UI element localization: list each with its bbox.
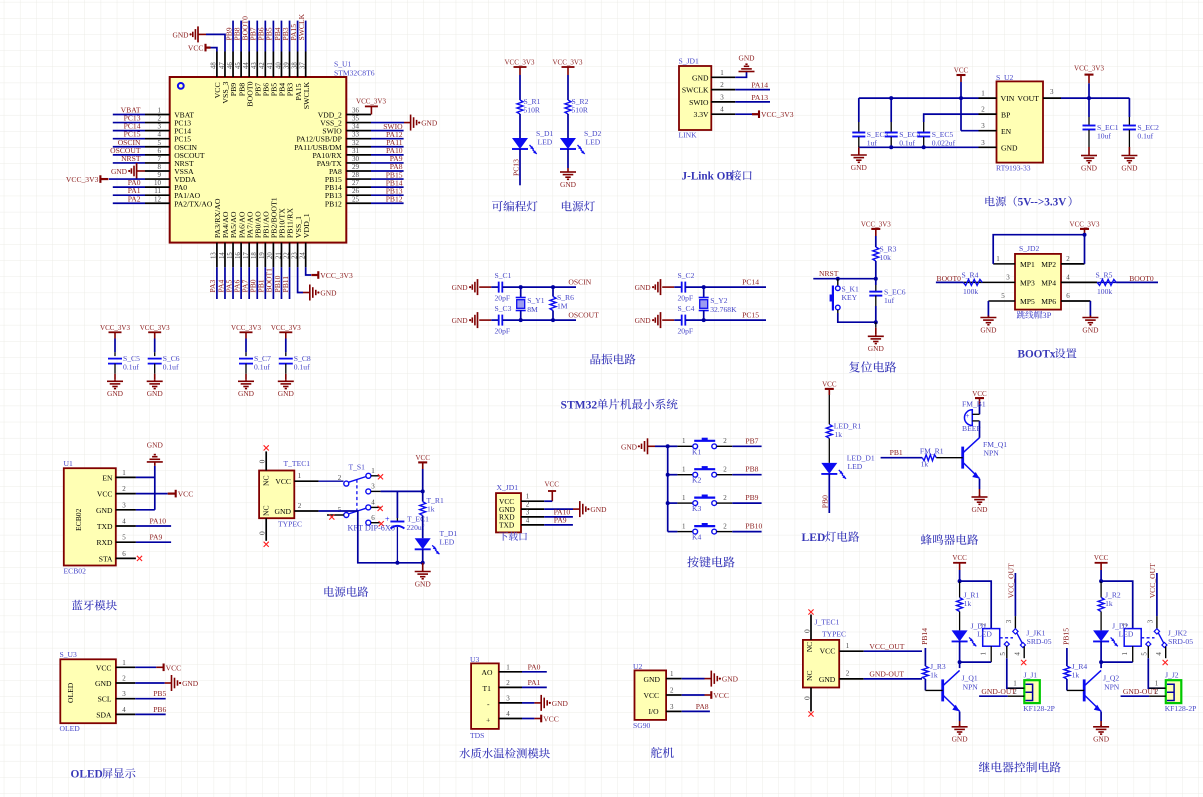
svg-text:2: 2 (122, 675, 126, 683)
svg-text:0: 0 (802, 629, 811, 633)
ground VSS_3 pin47 wire (172, 26, 225, 51)
svg-text:1: 1 (122, 659, 126, 667)
svg-text:GND: GND (238, 389, 255, 398)
relay coil J_JK2 (1101, 581, 1141, 662)
wire net PA9 download (544, 516, 573, 525)
wire net PA14 (735, 81, 770, 90)
svg-text:6: 6 (371, 514, 375, 522)
svg-text:0.1uf: 0.1uf (163, 363, 179, 372)
U1 pin 23 VSS_1 (291, 216, 302, 267)
power VCC_3V3 VDD_1 pin24 (306, 267, 353, 280)
svg-text:2: 2 (158, 115, 162, 123)
svg-text:NPN: NPN (984, 449, 1000, 458)
S_U2 left pin 1 (979, 90, 997, 99)
ground typec (415, 563, 432, 589)
U1 pin 30 PA9/TX (317, 154, 404, 168)
svg-text:VCC_3V3: VCC_3V3 (505, 59, 535, 67)
LED LED_D1 (821, 438, 875, 479)
svg-text:0: 0 (258, 459, 267, 463)
svg-text:6: 6 (1066, 292, 1070, 300)
X_JD1 pin 4 TXD (499, 516, 544, 529)
svg-text:MP3: MP3 (1020, 278, 1035, 287)
U1 pin 38 PA15 (289, 21, 303, 101)
svg-text:VCC: VCC (952, 554, 967, 562)
caption buzzer circuit (921, 534, 932, 545)
U1 pin 7 NRST (113, 154, 194, 168)
svg-text:3: 3 (1006, 273, 1010, 281)
svg-text:X_JD1: X_JD1 (497, 483, 519, 492)
wire net PC13 (511, 149, 520, 185)
svg-text:5V-->3.3V: 5V-->3.3V (1018, 197, 1067, 209)
U1 pin 32 PA11/USB/DM (294, 138, 403, 152)
U1 pin 37 SWCLK (297, 13, 311, 109)
svg-text:GND: GND (96, 506, 113, 515)
LED J_D2 (1093, 612, 1134, 647)
svg-text:1k: 1k (1105, 599, 1113, 608)
svg-text:2: 2 (723, 494, 727, 502)
X_JD1 pin 3 RXD (499, 508, 544, 521)
pin1 relay connector (1149, 679, 1166, 688)
svg-text:ECB02: ECB02 (74, 508, 83, 531)
U1 pin 22 PB11/RX (281, 208, 295, 299)
svg-text:3: 3 (981, 139, 985, 147)
S_U3 pin 1 VCC (96, 659, 135, 673)
svg-text:3: 3 (122, 501, 126, 509)
connector X_JD1 (496, 483, 527, 541)
svg-text:20pF: 20pF (678, 327, 694, 336)
svg-text:3.3V: 3.3V (694, 110, 709, 119)
LED S_D1 (512, 129, 554, 154)
U1 pin 41 PB5 (265, 21, 279, 97)
svg-text:K3: K3 (692, 504, 701, 513)
svg-text:VCC_3V3: VCC_3V3 (140, 324, 170, 332)
svg-text:31: 31 (352, 147, 360, 155)
relay switch pin5 (999, 642, 1024, 689)
resistor S_R1 510R (517, 97, 541, 115)
svg-text:29: 29 (352, 163, 360, 171)
svg-text:2: 2 (981, 106, 985, 114)
svg-text:4: 4 (526, 516, 530, 524)
svg-text:TYPEC: TYPEC (278, 520, 302, 529)
caption button circuit (687, 556, 698, 567)
svg-text:MP1: MP1 (1020, 260, 1035, 269)
svg-text:PA2: PA2 (128, 194, 141, 203)
svg-text:1k: 1k (427, 505, 435, 514)
svg-text:33: 33 (352, 131, 360, 139)
svg-text:TDS: TDS (470, 731, 484, 740)
svg-text:14: 14 (219, 252, 226, 259)
svg-text:5: 5 (999, 652, 1007, 656)
U1 pin 1 VBAT (113, 106, 195, 120)
crystal S_Y1 8M (516, 287, 545, 320)
U1 pin 44 BOOT0 (240, 16, 254, 107)
svg-text:LED: LED (538, 138, 553, 147)
svg-text:4: 4 (371, 499, 375, 507)
U1 pin 5 OSCIN (113, 138, 198, 152)
wire led to node (1099, 641, 1103, 664)
svg-text:3P: 3P (1042, 310, 1051, 320)
svg-text:VIN: VIN (1001, 94, 1015, 103)
U1 pin 17 PA7/AO (240, 211, 254, 299)
svg-text:3: 3 (670, 703, 674, 711)
U1 pin 35 VSS_2 (320, 115, 371, 128)
svg-text:NRST: NRST (819, 269, 839, 278)
svg-text:GND-OUT: GND-OUT (1123, 687, 1158, 696)
svg-text:J_JK2: J_JK2 (1168, 628, 1187, 637)
svg-text:2: 2 (720, 81, 724, 89)
svg-text:20pF: 20pF (678, 294, 694, 303)
J_TEC1 pin 0 top (802, 609, 813, 640)
svg-text:34: 34 (352, 123, 360, 131)
svg-text:VCC_3V3: VCC_3V3 (761, 110, 794, 119)
svg-text:2: 2 (1066, 255, 1070, 263)
svg-text:5: 5 (338, 506, 342, 514)
resistor J_R2 1k (1098, 581, 1121, 611)
svg-text:1M: 1M (557, 302, 568, 311)
capacitor S_EC6 1uf (869, 279, 905, 325)
svg-text:4: 4 (506, 710, 510, 718)
ground crystal bottom-left (635, 312, 675, 328)
svg-text:AO: AO (482, 668, 493, 677)
capacitor S_C6 0.1uf (140, 324, 180, 398)
svg-text:SWCLK: SWCLK (682, 86, 709, 95)
svg-text:3: 3 (371, 483, 375, 491)
push button S_K1 KEY (830, 279, 876, 323)
S_JD1 pin 4 3.3V (694, 106, 736, 120)
svg-text:SDA: SDA (96, 710, 112, 719)
svg-text:36: 36 (352, 107, 360, 115)
svg-text:20: 20 (267, 252, 274, 259)
wire net PB0 (821, 474, 830, 513)
svg-text:1: 1 (158, 107, 162, 115)
wire net PA8 (682, 702, 710, 712)
svg-text:SWIO: SWIO (689, 98, 709, 107)
svg-text:42: 42 (259, 62, 266, 69)
T_TEC1 pin 0 top (258, 445, 269, 470)
U1 pin 39 PB3 (281, 21, 295, 97)
module U2 SG90 (633, 662, 666, 730)
svg-text:OLED: OLED (60, 724, 81, 733)
T_TEC1 pin 1 (294, 472, 318, 481)
svg-text:LINK: LINK (679, 131, 698, 140)
svg-text:S_C2: S_C2 (678, 271, 695, 280)
svg-text:45: 45 (235, 62, 242, 69)
J_TEC1 pin 0 bottom (802, 688, 813, 717)
power VCC_3V3 VDDA pin9 (66, 175, 145, 184)
U1 pin 14 PA4/AO (216, 211, 230, 299)
svg-text:S_R5: S_R5 (1096, 270, 1113, 279)
svg-text:LED: LED (848, 462, 863, 471)
svg-text:21: 21 (275, 252, 282, 259)
svg-text:5: 5 (1001, 292, 1005, 300)
wire button bus (666, 444, 670, 531)
svg-text:11: 11 (154, 187, 161, 195)
svg-text:NC: NC (805, 670, 814, 681)
svg-text:OLED: OLED (71, 769, 103, 781)
svg-text:GND: GND (590, 505, 607, 514)
svg-text:KFT DIP-6X6: KFT DIP-6X6 (348, 524, 395, 533)
power VCC servo (682, 691, 729, 700)
svg-text:3: 3 (506, 694, 510, 702)
relay switch pin4 NC (1155, 646, 1168, 665)
svg-text:S_R4: S_R4 (962, 270, 979, 279)
U1 pin 9 VDDA (145, 171, 197, 184)
caption programmable LED (492, 201, 503, 212)
svg-text:GND: GND (278, 389, 295, 398)
U1 pin 25 PB12 (325, 194, 404, 208)
J_TEC1 pin 1 VCC_OUT (839, 642, 922, 651)
U1 pin 42 PB6 (257, 21, 271, 97)
power VCC relay J_R1 (952, 554, 967, 583)
svg-text:GND: GND (1093, 735, 1110, 744)
svg-text:22: 22 (283, 252, 290, 259)
S_U2 left pin 2 (979, 106, 997, 115)
resistor T_R1 1k (420, 491, 444, 515)
U1 pin 3 PC14 (113, 122, 191, 136)
svg-text:28: 28 (352, 171, 360, 179)
ground servo (682, 671, 739, 687)
svg-text:PB12: PB12 (325, 199, 342, 208)
svg-text:23: 23 (291, 252, 298, 259)
svg-text:PA13: PA13 (751, 93, 768, 102)
S_JD1 pin 2 SWCLK (682, 81, 735, 95)
svg-text:ECB02: ECB02 (64, 567, 87, 576)
svg-text:2: 2 (338, 474, 342, 482)
svg-text:4: 4 (720, 106, 724, 114)
svg-text:GND: GND (635, 316, 652, 325)
U1 pin 43 PB7 (249, 21, 263, 97)
S_JD2 row 1 pins (993, 255, 1084, 269)
svg-text:K1: K1 (692, 447, 701, 456)
svg-text:VCC: VCC (543, 715, 559, 724)
svg-text:PA9: PA9 (554, 516, 567, 525)
svg-text:VCC: VCC (1094, 554, 1109, 562)
S_JD2 row 2 pins (963, 273, 1097, 287)
S_U3 pin 3 SCL (98, 690, 136, 704)
svg-text:46: 46 (227, 62, 234, 69)
svg-text:1: 1 (996, 255, 1000, 263)
caption servo (651, 747, 662, 758)
svg-text:GND-OUT: GND-OUT (981, 687, 1016, 696)
S_JD1 pin 1 GND (692, 69, 735, 83)
svg-text:1: 1 (720, 69, 724, 77)
svg-text:40: 40 (275, 62, 282, 69)
svg-text:2: 2 (670, 687, 674, 695)
svg-text:PA9: PA9 (150, 533, 163, 542)
svg-text:5: 5 (122, 534, 126, 542)
svg-text:6: 6 (158, 147, 162, 155)
svg-text:GND: GND (107, 389, 124, 398)
U1 pin 13 PA3/RX/AO (208, 198, 222, 299)
S_U2 left pin 4 (979, 139, 997, 148)
wire net GND-OUT relay (979, 687, 1024, 696)
svg-text:GND: GND (320, 289, 337, 298)
svg-text:J_Q1: J_Q1 (962, 674, 978, 683)
svg-text:GND: GND (147, 441, 164, 450)
svg-text:0.1uf: 0.1uf (254, 363, 270, 372)
wire (519, 114, 521, 138)
svg-text:1uf: 1uf (884, 296, 895, 305)
module S_U3 OLED (60, 650, 116, 733)
ground buttons (621, 438, 668, 454)
svg-text:T1: T1 (483, 684, 492, 693)
MCU U1 STM32C8T6 body (170, 60, 375, 243)
svg-text:37: 37 (299, 62, 306, 69)
svg-text:1k: 1k (964, 599, 972, 608)
svg-text:0.1uf: 0.1uf (123, 363, 139, 372)
U1 pin 18 PB0/AO (249, 211, 263, 299)
svg-text:GND: GND (692, 73, 709, 82)
U1 pin 26 PB13 (325, 186, 404, 200)
svg-text:VCC: VCC (954, 67, 969, 75)
svg-text:GND: GND (182, 679, 199, 688)
svg-text:8M: 8M (527, 305, 538, 314)
svg-text:VCC: VCC (644, 691, 660, 700)
U2 pin 2 (666, 687, 682, 696)
svg-text:1: 1 (670, 670, 674, 678)
caption crystal circuit (590, 354, 600, 365)
svg-text:GND: GND (980, 325, 997, 334)
svg-text:27: 27 (352, 179, 360, 187)
svg-text:3: 3 (1005, 619, 1013, 623)
svg-text:LED: LED (802, 531, 826, 544)
ground bootx pin6 (1082, 301, 1099, 334)
svg-text:GND: GND (1081, 163, 1098, 172)
U3 pin 4 (499, 710, 522, 719)
power VCC download (544, 481, 559, 502)
svg-text:T_TEC1: T_TEC1 (284, 459, 311, 468)
svg-text:PB0: PB0 (821, 495, 830, 508)
resistor S_R4 100k (936, 270, 982, 296)
wire OSCIN row (686, 285, 767, 289)
U1 pin 2 PC13 (113, 114, 191, 128)
svg-text:NC: NC (805, 642, 814, 653)
svg-text:S_JD1: S_JD1 (679, 57, 699, 66)
resistor FM_R1 1k (881, 447, 963, 469)
svg-text:SRD-05: SRD-05 (1168, 637, 1193, 646)
svg-text:35: 35 (352, 115, 360, 123)
wire (567, 114, 569, 138)
caption bluetooth module (72, 600, 83, 610)
svg-text:NC: NC (262, 505, 271, 516)
svg-text:GND: GND (452, 316, 469, 325)
svg-text:GND: GND (738, 54, 755, 63)
svg-text:S_Y2: S_Y2 (710, 296, 728, 305)
svg-text:1: 1 (682, 494, 686, 502)
svg-text:PB15: PB15 (1062, 628, 1071, 645)
svg-text:1: 1 (506, 663, 510, 671)
U1 pin 11 PA1/AO (113, 186, 201, 200)
svg-text:SRD-05: SRD-05 (1027, 637, 1052, 646)
svg-text:3: 3 (122, 690, 126, 698)
svg-text:2: 2 (846, 670, 850, 678)
svg-text:32.768K: 32.768K (710, 305, 737, 314)
ground download (544, 501, 607, 517)
transistor J_Q2 NPN (1084, 662, 1120, 711)
capacitor S_EC3 1uf (852, 98, 888, 147)
svg-text:2: 2 (298, 502, 302, 510)
svg-text:T_S1: T_S1 (349, 463, 366, 472)
U1 ECB02 pin 3 GND (96, 501, 136, 515)
caption power 5V to 3.3V (985, 196, 994, 206)
wire OSCOUT row (503, 318, 577, 322)
svg-text:OSCIN: OSCIN (568, 278, 591, 287)
svg-text:S_Y1: S_Y1 (527, 296, 545, 305)
connector T_TEC1 TYPEC (259, 459, 310, 529)
U1 pin 33 PA12/USB/DP (296, 130, 403, 144)
svg-text:SWCLK: SWCLK (297, 13, 306, 40)
svg-text:PB11: PB11 (281, 276, 290, 293)
svg-text:STA: STA (99, 554, 113, 563)
svg-text:GND: GND (172, 30, 189, 39)
svg-text:PC14: PC14 (742, 278, 759, 287)
svg-text:PB12: PB12 (386, 194, 403, 203)
svg-text:GND: GND (421, 119, 438, 128)
transistor FM_Q1 NPN (963, 421, 1008, 479)
capacitor S_C3 20pF (491, 304, 511, 336)
wire switch pin3 to VCC rail (381, 489, 425, 493)
wire net VCC_OUT relay (1146, 563, 1157, 629)
S_U3 pin 4 SDA (96, 706, 135, 720)
svg-text:PA0: PA0 (528, 662, 541, 671)
svg-text:VCC_3V3: VCC_3V3 (1070, 221, 1100, 229)
U1 pin 19 PB1/AO (257, 211, 271, 299)
module U1 ECB02 (64, 459, 116, 576)
svg-text:0.1uf: 0.1uf (1137, 132, 1153, 141)
ground VSS_1 pin23 (298, 267, 337, 300)
capacitor S_EC4 0.1uf (885, 96, 921, 149)
svg-text:PA1: PA1 (528, 678, 541, 687)
svg-text:VCC_3V3: VCC_3V3 (66, 175, 99, 184)
svg-text:S_C1: S_C1 (495, 271, 512, 280)
svg-text:VCC: VCC (178, 490, 194, 499)
U2 pin 3 (666, 703, 682, 712)
svg-text:10k: 10k (880, 253, 892, 262)
svg-text:2: 2 (723, 466, 727, 474)
svg-text:VDD_1: VDD_1 (302, 213, 311, 238)
ground relay J_Q2 (1093, 712, 1110, 744)
svg-text:GND: GND (868, 344, 885, 353)
U3 pin 1 (499, 663, 522, 672)
svg-text:GND: GND (952, 735, 969, 744)
svg-text:SG90: SG90 (633, 721, 651, 730)
connector J_J1 KF128-2P (1023, 671, 1055, 714)
svg-text:FM_B1: FM_B1 (962, 400, 986, 409)
T_TEC1 pin 0 bottom (258, 518, 269, 547)
svg-text:BOOT0: BOOT0 (1129, 274, 1154, 283)
J_TEC1 pin 2 GND-OUT (839, 670, 922, 679)
svg-text:1: 1 (682, 522, 686, 530)
U1 pin 36 VDD_2 (318, 107, 371, 120)
svg-text:GND: GND (452, 283, 469, 292)
wire net VCC_OUT relay (1005, 563, 1016, 629)
svg-text:1uf: 1uf (867, 139, 878, 148)
svg-text:+: + (966, 412, 970, 420)
svg-text:4: 4 (122, 518, 126, 526)
svg-text:FM_R1: FM_R1 (920, 447, 944, 456)
svg-text:GND: GND (819, 675, 836, 684)
relay coil J_JK1 (960, 581, 1000, 662)
svg-text:20pF: 20pF (495, 294, 511, 303)
svg-text:13: 13 (211, 252, 218, 259)
svg-text:100k: 100k (963, 287, 978, 296)
svg-text:17: 17 (243, 252, 250, 259)
module U3 TDS (470, 655, 499, 740)
U3 pin 3 (499, 694, 522, 703)
wire net PA13 (735, 93, 770, 102)
svg-text:RT9193-33: RT9193-33 (996, 164, 1031, 173)
svg-text:1k: 1k (921, 460, 929, 469)
